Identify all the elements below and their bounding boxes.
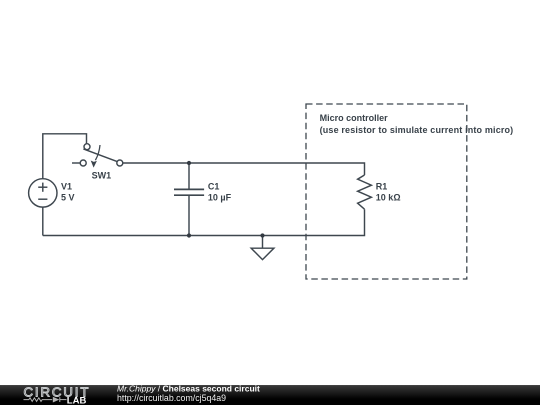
wire V1 top to switch: [43, 134, 87, 179]
capacitor C1: [174, 163, 204, 236]
resistor R1: [358, 175, 372, 209]
svg-text:V1: V1: [61, 182, 72, 192]
svg-text:10 kΩ: 10 kΩ: [376, 193, 401, 203]
svg-text:(use resistor to simulate curr: (use resistor to simulate current into m…: [320, 125, 514, 135]
switch SW1: [80, 144, 123, 166]
ground: [251, 236, 274, 260]
svg-text:http://circuitlab.com/cj5q4a9: http://circuitlab.com/cj5q4a9: [117, 393, 226, 403]
wire V1 bottom: [42, 207, 44, 236]
logo wire with resistor and diode: [24, 397, 67, 402]
footer bar: [0, 385, 540, 405]
wire top rail: [123, 163, 365, 175]
dashed box micro controller: [306, 104, 467, 279]
voltage source V1: [29, 179, 57, 207]
node junction bottom C1: [187, 233, 191, 237]
wire bottom rail: [43, 209, 365, 235]
svg-text:SW1: SW1: [92, 171, 112, 181]
node junction ground: [260, 233, 264, 237]
svg-text:C1: C1: [208, 182, 220, 192]
logo diode: [53, 397, 60, 403]
node junction top C1: [187, 161, 191, 165]
svg-text:LAB: LAB: [67, 395, 87, 405]
svg-text:R1: R1: [376, 182, 388, 192]
svg-text:Micro controller: Micro controller: [320, 113, 389, 123]
svg-text:5 V: 5 V: [61, 193, 75, 203]
wire switch left stub: [72, 162, 80, 164]
switch arrow head: [91, 161, 97, 168]
svg-text:Mr.Chippy / Chelseas second ci: Mr.Chippy / Chelseas second circuit: [117, 384, 260, 394]
svg-text:10 µF: 10 µF: [208, 193, 232, 203]
